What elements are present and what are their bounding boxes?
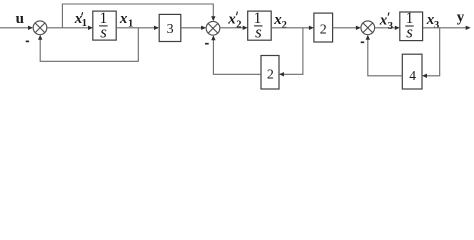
minus sign at S2	[205, 43, 209, 45]
svg-text:3: 3	[167, 22, 174, 37]
node u	[16, 11, 24, 27]
svg-text:u: u	[16, 11, 24, 27]
node x3 label	[426, 12, 440, 31]
gain block G2 feedforward (value 2)	[314, 13, 333, 42]
node x1 label	[119, 11, 133, 29]
summing junction S3	[361, 21, 375, 35]
svg-text:2: 2	[267, 67, 274, 82]
feedback wire loop1: x1 branch to S1 bottom	[38, 28, 138, 62]
svg-text:2: 2	[282, 20, 287, 31]
minus sign at S3	[361, 41, 365, 43]
svg-text:3: 3	[434, 20, 439, 31]
node x1dot label	[74, 11, 87, 29]
summing junction S1	[33, 21, 47, 35]
svg-text:3: 3	[388, 21, 393, 32]
gain block G3 (value 3)	[159, 14, 181, 41]
wire S3 to integrator block I3	[375, 26, 400, 30]
node y	[457, 10, 465, 26]
svg-text:x: x	[379, 12, 388, 28]
summing junction S2	[206, 21, 220, 35]
node x2 label	[273, 12, 287, 31]
wire G3 to S2	[181, 26, 206, 30]
svg-text:4: 4	[409, 68, 416, 83]
branch node feedforward (x1dot to S2 top)	[62, 4, 215, 28]
integrator block U1 (1/s)	[93, 11, 116, 40]
feedback wire loop3 left: FB4 to S3 bottom	[366, 35, 403, 76]
feedback wire loop2 left: FB2 to S2 bottom	[211, 35, 261, 74]
wire G2 to S3	[333, 26, 361, 30]
wire I2 to gain block G2	[271, 26, 314, 30]
node x3dot label	[379, 12, 393, 32]
svg-text:x: x	[227, 12, 236, 28]
integrator block U2 (1/s)	[248, 11, 272, 40]
node x2dot label	[227, 12, 241, 31]
gain block FB2 (value 2)	[261, 56, 279, 90]
wire S2 to integrator block I2	[220, 26, 248, 30]
wire I3 to output y	[423, 26, 471, 30]
svg-text:x: x	[119, 11, 128, 27]
minus sign at S1	[26, 40, 29, 42]
integrator block U3 (1/s)	[400, 12, 423, 41]
wire input u to S1	[0, 26, 33, 30]
svg-text:1: 1	[82, 18, 87, 29]
wire S1 to integrator block I1	[47, 26, 93, 30]
gain block FB4 (value 4)	[402, 54, 422, 89]
feedback wire loop2 right: x2 branch down to gain block FB2	[279, 28, 303, 77]
svg-text:2: 2	[320, 23, 327, 38]
wire I1 to gain block G3	[116, 26, 159, 30]
svg-text:y: y	[457, 10, 465, 26]
feedback wire loop3 right: x3 branch down to gain block FB4	[422, 28, 440, 78]
svg-text:2: 2	[236, 19, 241, 30]
